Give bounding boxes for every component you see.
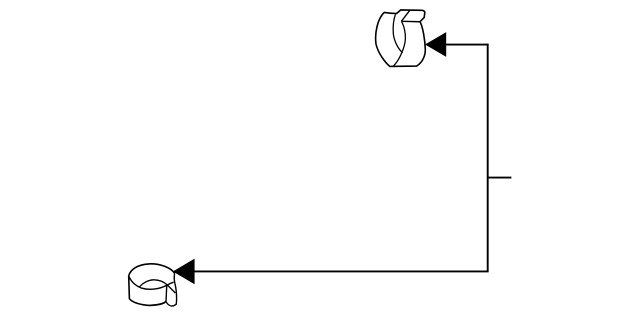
wire right vertical [487,44,489,272]
clamp part lower wall (left and bottom) [129,276,166,306]
clamp part lower rim right edge down to tab [173,273,176,283]
clamp part upper tab crease [401,10,410,21]
wire lower horizontal [194,270,489,272]
clamp part upper inner bore right arc [393,21,405,66]
arrowhead lower [173,259,195,285]
clamp part lower rim top arc [129,264,175,276]
clamp part lower tab [166,283,177,306]
wire upper horizontal [446,44,489,46]
clamp part upper inner bore left arc [393,14,402,53]
arrowhead upper [425,32,446,57]
clamp part lower bore arc and split edge [139,280,175,293]
clamp part upper tab bottom edge [402,20,420,22]
clamp part upper (outer outline) [376,10,426,67]
clamp part lower rim near arc [129,276,174,289]
tick stub on vertical wire [488,177,512,179]
